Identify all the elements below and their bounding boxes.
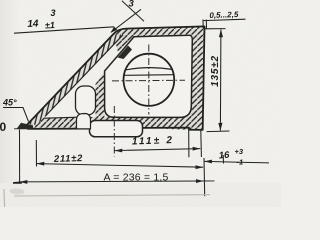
svg-text:±1: ±1	[45, 20, 55, 31]
svg-text:14: 14	[27, 18, 39, 30]
svg-text:-1: -1	[237, 158, 244, 167]
svg-text:+3: +3	[235, 147, 244, 156]
svg-text:111± 2: 111± 2	[132, 135, 175, 147]
svg-text:3: 3	[129, 0, 135, 10]
svg-text:3: 3	[51, 8, 56, 18]
svg-text:A = 236 = 1,5: A = 236 = 1,5	[104, 172, 169, 184]
svg-text:16: 16	[218, 150, 230, 162]
svg-text:0: 0	[0, 120, 7, 134]
svg-text:0,5...2,5: 0,5...2,5	[209, 10, 239, 20]
svg-text:211±2: 211±2	[53, 153, 84, 165]
svg-text:45°: 45°	[2, 98, 17, 108]
svg-text:135±2: 135±2	[210, 55, 221, 87]
